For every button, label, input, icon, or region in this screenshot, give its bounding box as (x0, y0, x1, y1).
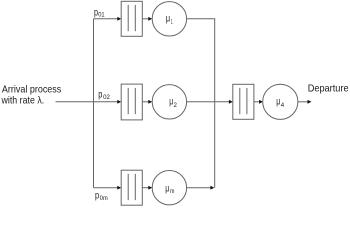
wire queue m to server m (142, 187, 149, 189)
svg-text:1: 1 (171, 18, 173, 25)
svg-text:02: 02 (103, 94, 110, 101)
svg-text:01: 01 (98, 12, 105, 19)
svg-text:μ: μ (276, 96, 280, 108)
label mu4 (276, 96, 284, 109)
server circle Um (152, 171, 186, 205)
server circle U1 (152, 2, 186, 36)
wire server 2 to final queue (187, 101, 230, 103)
wire queue 1 to server 1 (142, 18, 149, 20)
arrowhead departure (308, 100, 312, 104)
svg-text:m: m (170, 188, 174, 195)
wire branch to queue 1 (94, 18, 119, 20)
label p0m (95, 189, 108, 201)
wire server m to merge (187, 187, 212, 189)
svg-text:μ: μ (165, 183, 169, 195)
arrowhead into queue 2 (117, 100, 121, 104)
wire final queue to server 4 (254, 101, 260, 103)
label p01 (94, 7, 105, 19)
wire branch to queue 2 (117, 101, 119, 103)
arrowhead into server 4 (259, 100, 263, 104)
queue box Q2 (121, 84, 142, 120)
label mu1 (166, 13, 173, 26)
label mu2 (169, 96, 177, 109)
wire departure output (298, 101, 309, 103)
arrowhead into queue m (117, 186, 121, 190)
svg-text:Departure: Departure (308, 82, 349, 94)
queue box Q1 (121, 1, 142, 36)
wire server 1 to merge (187, 18, 216, 20)
wire arrival input (56, 101, 119, 103)
arrowhead at merge junction (210, 186, 214, 190)
svg-text:μ: μ (166, 13, 170, 25)
svg-text:p: p (95, 189, 99, 201)
label mum (165, 183, 174, 195)
server circle U2 (152, 85, 186, 119)
wire branch to queue m (94, 187, 119, 189)
queue box Qm (121, 170, 142, 205)
arrowhead into server m (148, 186, 152, 190)
right merge vertical wire (214, 19, 216, 188)
wire queue 2 to server 2 (142, 101, 149, 103)
svg-text:with rate λ.: with rate λ. (1, 94, 45, 106)
svg-text:μ: μ (169, 96, 173, 108)
arrowhead into queue 1 (117, 17, 121, 21)
svg-text:0m: 0m (100, 195, 108, 202)
arrowhead into server 1 (148, 17, 152, 21)
svg-text:p: p (98, 89, 102, 101)
arrowhead into server 2 (148, 100, 152, 104)
queue box Q4 (233, 84, 254, 119)
label p02 (98, 89, 110, 102)
server circle U4 (263, 84, 298, 119)
svg-text:4: 4 (281, 102, 285, 109)
left branch vertical wire (93, 19, 95, 188)
svg-text:2: 2 (174, 102, 178, 109)
arrowhead into final queue (229, 100, 233, 104)
